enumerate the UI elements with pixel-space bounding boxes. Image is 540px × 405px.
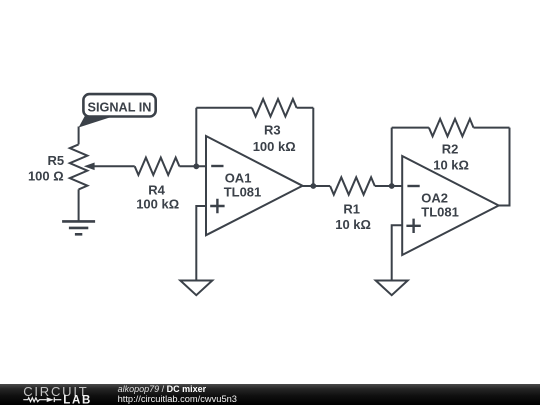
svg-text:TL081: TL081	[421, 205, 459, 220]
svg-text:LAB: LAB	[63, 395, 92, 405]
svg-text:R5: R5	[47, 153, 64, 168]
wire feedback left vertical up	[195, 108, 197, 167]
logo resistor and diode symbol	[23, 397, 61, 402]
svg-text:R4: R4	[148, 182, 165, 197]
wire R4 to OA1 minus input	[179, 165, 206, 167]
wire R1 to OA2 minus input	[375, 185, 402, 187]
OA1 plus symbol	[210, 199, 224, 213]
node junction A dot	[193, 163, 199, 169]
wire OA2 plus input	[392, 225, 403, 280]
ground triangle under OA2	[376, 281, 408, 296]
wire OA2 feedback top right lead	[474, 127, 510, 129]
svg-text:100 Ω: 100 Ω	[28, 169, 64, 184]
resistor R1 body	[330, 177, 375, 194]
op-amp OA1 triangle	[206, 136, 303, 235]
footer url line	[118, 395, 237, 404]
wire feedback right vertical down	[312, 108, 314, 186]
wire feedback top right lead	[297, 107, 314, 109]
svg-text:TL081: TL081	[224, 185, 262, 200]
svg-text:OA2: OA2	[421, 191, 448, 206]
resistor R4 body	[135, 158, 180, 175]
OA2 minus symbol	[407, 185, 419, 187]
flag SIGNAL IN box	[83, 94, 155, 116]
wire flag to R5	[78, 127, 80, 145]
wire R5 to ground	[78, 189, 80, 221]
wire R5 wiper to R4	[93, 165, 135, 167]
resistor R2 body	[429, 119, 474, 136]
ground earth under R5	[62, 221, 95, 234]
potentiometer R5 body	[70, 144, 88, 189]
svg-text:OA1: OA1	[225, 171, 252, 186]
svg-text:100 kΩ: 100 kΩ	[253, 139, 296, 154]
ground triangle under OA1	[180, 281, 212, 296]
op-amp OA2 triangle	[402, 156, 499, 255]
flag tail	[79, 116, 114, 128]
wire OA1 plus input	[196, 206, 206, 281]
svg-text:10 kΩ: 10 kΩ	[335, 217, 371, 232]
node OA1 output dot	[310, 183, 316, 189]
footer bar	[0, 384, 540, 405]
resistor R3 body	[252, 99, 297, 116]
svg-text:10 kΩ: 10 kΩ	[433, 158, 469, 173]
wire OA2 feedback top left lead	[392, 127, 429, 129]
svg-text:SIGNAL IN: SIGNAL IN	[88, 101, 152, 115]
footer credit line	[118, 385, 207, 394]
svg-text:R1: R1	[343, 201, 360, 216]
R5 wiper arrow	[84, 163, 95, 171]
svg-text:R2: R2	[442, 141, 459, 156]
wire OA1 output	[303, 185, 331, 187]
node junction B dot	[389, 183, 395, 189]
wire feedback top left lead	[196, 107, 252, 109]
svg-text:R3: R3	[264, 123, 281, 138]
wire OA2 feedback left vertical	[391, 128, 393, 186]
svg-text:100 kΩ: 100 kΩ	[136, 197, 179, 212]
wire OA2 feedback right vertical	[499, 128, 510, 206]
OA2 plus symbol	[406, 219, 420, 233]
OA1 minus symbol	[211, 165, 223, 167]
CircuitLab logo wordmark	[0, 384, 120, 405]
